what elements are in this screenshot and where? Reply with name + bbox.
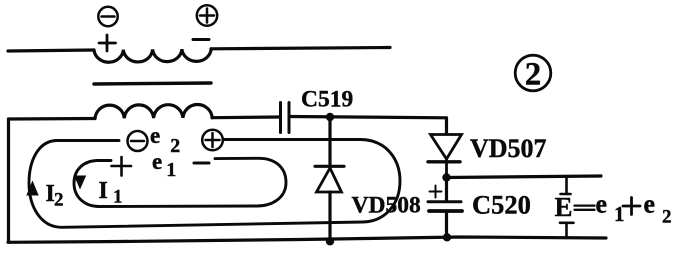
capacitor C519 xyxy=(281,103,290,133)
figure number circle 2 xyxy=(515,55,551,91)
node junction VD508 bottom xyxy=(326,237,334,245)
svg-text:2: 2 xyxy=(662,207,672,228)
wire primary left lead xyxy=(8,50,94,51)
svg-text:E: E xyxy=(555,192,573,222)
wire secondary left lead xyxy=(9,117,96,121)
svg-text:VD508: VD508 xyxy=(352,193,421,219)
wire left vertical side xyxy=(7,119,10,242)
svg-text:2: 2 xyxy=(54,190,64,211)
circled minus loop e2 xyxy=(128,131,148,151)
wire C519 to VD507 corner xyxy=(289,117,447,118)
transformer secondary winding xyxy=(95,104,212,118)
transformer primary winding xyxy=(94,49,211,62)
svg-text:1: 1 xyxy=(113,187,123,208)
svg-text:I: I xyxy=(99,178,108,204)
transformer core xyxy=(94,83,211,84)
circled plus primary polarity xyxy=(197,5,217,25)
E measurement tick bottom xyxy=(560,223,574,238)
plus sign primary xyxy=(99,35,116,51)
minus sign primary xyxy=(193,38,209,41)
svg-text:C520: C520 xyxy=(472,190,531,220)
arrow on I2 loop xyxy=(26,181,38,196)
svg-text:C519: C519 xyxy=(301,87,353,113)
svg-text:e: e xyxy=(644,190,656,219)
svg-text:e: e xyxy=(596,190,608,219)
wire secondary to C519 xyxy=(212,115,280,119)
E measurement tick top xyxy=(561,177,571,194)
plus sign e1 polarity xyxy=(112,157,132,176)
svg-text:2: 2 xyxy=(525,57,542,93)
wire primary right lead xyxy=(211,48,390,49)
wire top output rail xyxy=(447,176,602,178)
wire VD508 vertical upper xyxy=(328,117,331,166)
wire VD508 vertical lower xyxy=(328,192,331,241)
diode VD508 xyxy=(315,166,344,192)
node junction C519/VD508 xyxy=(326,113,334,121)
node junction C520 bottom xyxy=(443,233,451,241)
diode VD507 xyxy=(428,135,462,178)
wire VD507 top vertical xyxy=(445,118,448,134)
svg-text:VD507: VD507 xyxy=(470,134,547,163)
current loop I1 xyxy=(74,158,286,206)
plus sign C520 polarity xyxy=(430,186,442,198)
wire bottom rail xyxy=(8,237,606,242)
circled minus primary polarity xyxy=(98,7,117,26)
current loop I2 xyxy=(29,140,400,228)
circled plus loop e2 xyxy=(202,130,223,151)
node junction VD507 cathode xyxy=(442,173,450,181)
minus sign e1 polarity xyxy=(194,162,209,165)
arrow on I1 loop xyxy=(74,176,86,190)
capacitor C520 xyxy=(428,178,462,238)
